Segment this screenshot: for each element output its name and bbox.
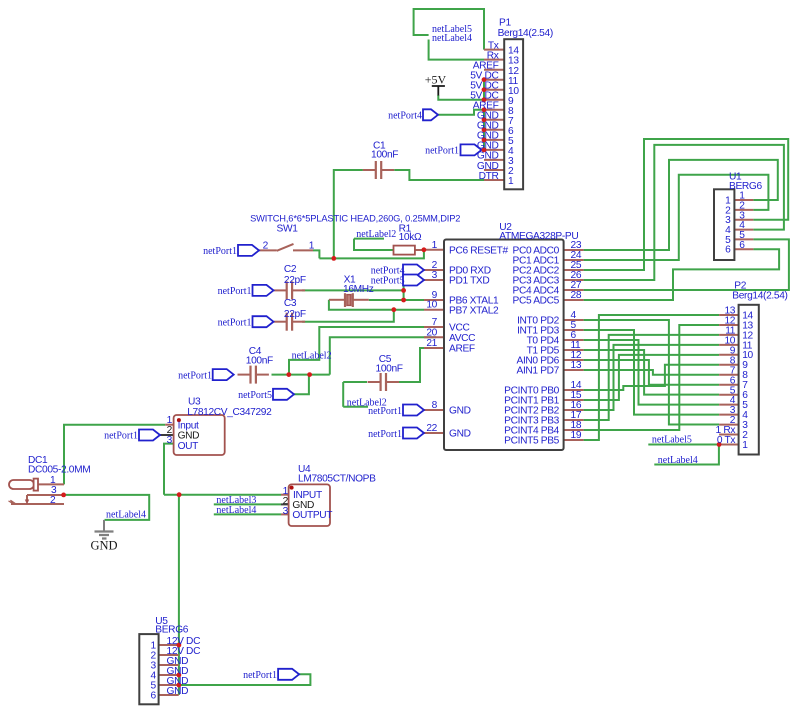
svg-text:100nF: 100nF [371,150,398,161]
svg-text:netPort1: netPort1 [425,146,459,157]
svg-text:2: 2 [50,495,56,506]
svg-text:netLabel4: netLabel4 [216,505,256,516]
svg-text:6: 6 [150,691,156,702]
svg-text:GND: GND [90,539,117,553]
svg-text:2: 2 [263,240,269,251]
svg-text:netPort1: netPort1 [218,286,252,297]
svg-text:+5V: +5V [425,73,447,87]
svg-text:13: 13 [571,360,582,371]
svg-text:3: 3 [432,270,438,281]
svg-text:PC5 ADC5: PC5 ADC5 [513,296,560,307]
svg-text:netPort1: netPort1 [368,406,402,417]
svg-text:6: 6 [739,240,745,251]
svg-text:C3: C3 [284,298,297,309]
svg-text:netLabel4: netLabel4 [658,455,698,466]
svg-text:6: 6 [725,245,731,256]
svg-text:DC005-2.0MM: DC005-2.0MM [28,465,90,476]
svg-text:C2: C2 [284,264,297,275]
svg-text:22pF: 22pF [284,309,306,320]
svg-text:netPort5: netPort5 [371,276,405,287]
svg-text:PCINT5 PB5: PCINT5 PB5 [504,436,559,447]
svg-text:PD1 TXD: PD1 TXD [449,276,489,287]
svg-text:8: 8 [432,400,438,411]
svg-text:U3: U3 [188,396,201,407]
svg-text:netLabel4: netLabel4 [432,33,472,44]
svg-text:LM7805CT/NOPB: LM7805CT/NOPB [298,473,376,484]
svg-text:20: 20 [426,327,437,338]
svg-text:ATMEGA328P-PU: ATMEGA328P-PU [499,231,578,242]
svg-text:10: 10 [426,300,437,311]
svg-text:BERG6: BERG6 [155,625,188,636]
svg-text:16MHz: 16MHz [343,284,374,295]
svg-text:AIN1 PD7: AIN1 PD7 [517,366,560,377]
svg-text:100nF: 100nF [246,355,273,366]
svg-text:netPort1: netPort1 [243,670,277,681]
svg-text:GND: GND [449,406,471,417]
svg-text:1: 1 [432,240,438,251]
svg-text:AVCC: AVCC [449,333,475,344]
svg-text:netLabel5: netLabel5 [652,434,692,445]
svg-text:PB7 XTAL2: PB7 XTAL2 [449,305,499,316]
svg-text:L7812CV_C347292: L7812CV_C347292 [187,407,272,418]
svg-text:1: 1 [508,176,514,187]
svg-text:22: 22 [426,423,437,434]
svg-text:Berg14(2.54): Berg14(2.54) [498,28,553,39]
svg-text:SWITCH,6*6*5PLASTIC HEAD,260G,: SWITCH,6*6*5PLASTIC HEAD,260G, 0.25MM,DI… [250,213,460,223]
svg-text:netPort1: netPort1 [178,370,212,381]
svg-text:netPort1: netPort1 [104,431,138,442]
svg-text:0 Tx: 0 Tx [717,435,735,446]
svg-text:BERG6: BERG6 [729,181,762,192]
svg-text:netPort1: netPort1 [203,246,237,257]
svg-text:3: 3 [167,435,173,446]
svg-text:PC6 RESET#: PC6 RESET# [449,245,508,256]
svg-text:1: 1 [309,240,315,251]
svg-text:netPort1: netPort1 [218,318,252,329]
svg-text:OUTPUT: OUTPUT [292,510,332,521]
svg-text:netPort5: netPort5 [238,390,272,401]
svg-text:netPort4: netPort4 [388,110,422,121]
svg-text:21: 21 [426,338,437,349]
svg-text:19: 19 [571,430,582,441]
svg-text:netLabel2: netLabel2 [292,350,332,361]
svg-text:Berg14(2.54): Berg14(2.54) [732,291,787,302]
svg-text:100nF: 100nF [376,364,403,375]
svg-text:10kΩ: 10kΩ [399,232,422,243]
svg-text:netPort1: netPort1 [368,429,402,440]
svg-text:28: 28 [571,290,582,301]
svg-text:netLabel2: netLabel2 [356,229,396,240]
svg-text:1: 1 [742,440,748,451]
svg-text:DTR: DTR [479,171,499,182]
svg-text:AREF: AREF [449,344,475,355]
svg-text:GND: GND [449,429,471,440]
svg-text:SW1: SW1 [277,224,299,235]
svg-text:3: 3 [283,506,289,517]
svg-text:OUT: OUT [178,441,199,452]
svg-text:netLabel4: netLabel4 [106,509,146,520]
svg-text:22pF: 22pF [284,275,306,286]
svg-text:GND: GND [167,686,189,697]
